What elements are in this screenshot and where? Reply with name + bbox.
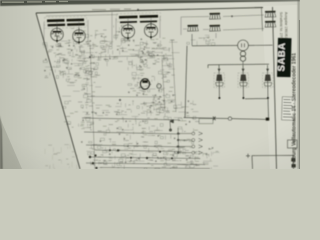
labels around V1/V2 <box>51 28 92 44</box>
magic eye tube <box>140 79 149 89</box>
tube V4 <box>144 22 157 39</box>
SABA logo box <box>276 38 291 77</box>
choke Dr2 <box>238 65 248 99</box>
svg-text:Schaltbild Nr. 275: Schaltbild Nr. 275 <box>279 12 283 39</box>
labels left of V3 <box>114 25 124 38</box>
IF transformer Fi1 <box>44 16 86 28</box>
schematic frame <box>36 8 263 14</box>
svg-text:Freiburg Vollautomatic 14 · St: Freiburg Vollautomatic 14 · Stereodecode… <box>292 53 298 168</box>
mid upper right column <box>128 61 149 97</box>
choke Dr1 <box>214 65 224 99</box>
bottom dense band <box>87 145 220 171</box>
top dark band (photo edge) <box>0 0 300 6</box>
wires block A <box>44 15 118 45</box>
centre column lower parts <box>142 87 183 116</box>
components below V1/V2 <box>43 40 112 67</box>
terminal flag 1 <box>170 119 213 130</box>
coil L3 <box>209 25 220 31</box>
mid upper left column <box>82 58 101 98</box>
left strip parts upper <box>54 44 85 77</box>
mid dense area <box>81 98 200 148</box>
photo left edge <box>0 115 3 169</box>
left strip parts lower <box>62 74 91 128</box>
coil L2 <box>187 25 198 31</box>
svg-text:Ausgabe 1960/61: Ausgabe 1960/61 <box>284 12 288 39</box>
paper background <box>0 0 300 169</box>
faint margin marks bottom-left <box>45 144 77 171</box>
tube V3 <box>121 23 134 40</box>
dark cluster centre <box>149 94 166 112</box>
twin dial lamps <box>240 51 245 65</box>
speaker terminal arrows <box>169 128 202 154</box>
centre column mid parts <box>141 55 172 86</box>
coil L5 <box>265 21 276 27</box>
loop top wire <box>208 64 269 68</box>
tube V1 <box>51 26 64 43</box>
wires top right <box>181 15 264 38</box>
bottom bus wires <box>86 149 210 169</box>
coil L1 <box>209 13 220 19</box>
lower block A parts <box>44 63 94 78</box>
coil L4 <box>265 11 276 17</box>
IF transformer Fi2 <box>116 13 160 22</box>
centre column dense parts <box>138 40 179 81</box>
long wires centre <box>87 40 176 169</box>
svg-text:SABA: SABA <box>276 42 288 71</box>
choke Dr3 <box>263 65 273 99</box>
labels right of block A <box>95 30 113 59</box>
parts under coils <box>187 35 215 45</box>
faint text above frame <box>92 9 131 11</box>
tube V2 <box>73 28 86 45</box>
small data table right margin <box>282 97 295 120</box>
wires block B <box>112 9 190 46</box>
mid horizontal wires <box>82 118 185 147</box>
bottom-right wire loop <box>246 140 297 169</box>
bus bottom <box>184 46 270 121</box>
photo right edge <box>297 0 300 169</box>
components below V3/V4 <box>112 37 167 64</box>
lamp/connector circle on wire <box>192 34 273 51</box>
